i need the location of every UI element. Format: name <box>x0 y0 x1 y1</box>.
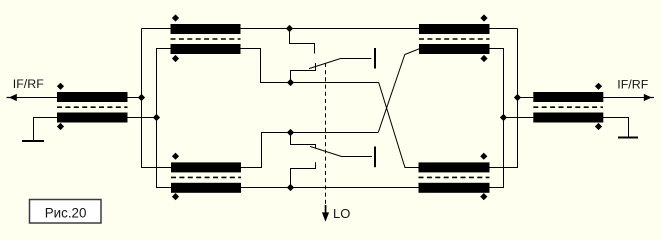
wire T6 bottom left from inner rail <box>504 117 534 119</box>
wire crossing diagonal A to T4 bottom <box>378 49 419 133</box>
phase dot T4 top <box>480 14 487 21</box>
transformer T4 core <box>419 38 490 40</box>
transformer T6 windings <box>533 92 603 123</box>
phase dot T3 bottom <box>172 193 179 200</box>
ground right <box>618 137 638 139</box>
wire top rail y=29 from left rail to right rail <box>142 28 518 30</box>
wire right inner rail <box>490 49 504 188</box>
phase dot T5 top <box>480 153 487 160</box>
phase dot T6 top <box>595 83 602 90</box>
phase dot T1 bottom <box>57 123 64 130</box>
transformer T3 core <box>171 176 241 178</box>
switch S2 lower contact <box>291 162 316 187</box>
svg-text:IF/RF: IF/RF <box>13 77 44 91</box>
wire T6 top left from outer rail <box>518 97 534 99</box>
transformer T5 windings <box>419 162 490 192</box>
transformer T2 core <box>171 38 241 40</box>
phase dot T3 top <box>172 153 179 160</box>
phase dot T5 bottom <box>480 193 487 200</box>
transformer T1 windings <box>57 92 128 123</box>
wire left IF/RF line <box>9 97 57 99</box>
phase dot T2 top <box>172 14 179 21</box>
LO dashed link line <box>325 63 327 208</box>
switch S2 lever <box>310 146 372 156</box>
wire left inner rail <box>157 49 172 188</box>
transformer T3 windings <box>171 162 241 192</box>
wire T1 top right to outer rail <box>128 97 142 99</box>
wire T6 bottom right to ground <box>603 118 629 138</box>
ground left <box>22 140 44 142</box>
switch S1 lower contact <box>291 63 316 83</box>
transformer T6 core <box>533 106 603 108</box>
transformer T2 windings <box>171 24 241 54</box>
wire right IF/RF line <box>603 97 646 99</box>
phase dot T1 top <box>57 83 64 90</box>
phase dot T4 bottom <box>480 55 487 62</box>
LO arrowhead <box>322 205 329 222</box>
junction node S1 lower <box>287 79 294 86</box>
junction node S2 lower <box>287 184 294 191</box>
transformer T1 core <box>57 106 128 108</box>
junction node right inner rail <box>500 114 507 121</box>
phase dot T6 bottom <box>595 123 602 130</box>
wire T3 top right to S2 upper node <box>241 133 378 168</box>
junction node right outer rail <box>514 94 521 101</box>
switch S2 upper contact <box>291 133 316 149</box>
wire T2 bottom right to S1 lower node <box>241 49 379 83</box>
figure caption box <box>30 200 102 224</box>
transformer T5 core <box>419 176 490 178</box>
wire bottom rail y=187.8 <box>241 187 419 189</box>
switch S2 actuator bar <box>374 147 376 168</box>
wire right outer rail <box>490 29 518 168</box>
switch S1 actuator bar <box>374 48 376 69</box>
junction node left inner rail <box>153 114 160 121</box>
svg-text:LO: LO <box>333 206 350 221</box>
wire T1 bottom right to inner rail <box>128 117 157 119</box>
junction node left outer rail <box>138 94 145 101</box>
svg-text:IF/RF: IF/RF <box>617 77 648 91</box>
switch S1 upper contact <box>290 29 315 54</box>
right IF/RF arrowhead <box>644 94 652 101</box>
wire crossing diagonal B to T5 top <box>379 83 419 168</box>
junction node S2 upper <box>287 129 294 136</box>
svg-text:Рис.20: Рис.20 <box>45 205 87 220</box>
junction node top rail S1 <box>286 25 293 32</box>
wire T1 bottom left to ground <box>34 118 58 142</box>
wire left outer rail <box>142 29 172 168</box>
phase dot T2 bottom <box>172 55 179 62</box>
left IF/RF arrowhead <box>9 94 17 101</box>
switch S1 lever <box>309 59 371 69</box>
transformer T4 windings <box>419 24 490 54</box>
